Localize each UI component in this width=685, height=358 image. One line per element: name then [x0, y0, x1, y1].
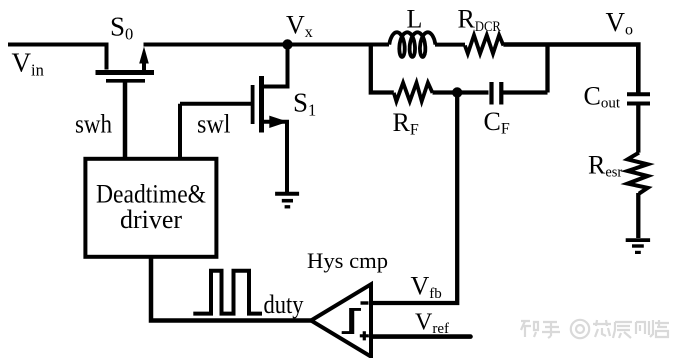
transistor S1 channel bar: [259, 76, 264, 133]
wire Vin to S0 drain: [8, 45, 107, 70]
ground under S1: [275, 194, 299, 207]
hysteresis symbol: [342, 309, 361, 332]
transistor S1 gate bar: [251, 85, 255, 124]
wire CF to right vertical: [503, 45, 548, 93]
op-amp U1 hysteretic comparator triangle: [311, 284, 371, 356]
svg-text:duty: duty: [264, 290, 304, 319]
resistor RDCR: [465, 35, 504, 54]
svg-text:swh: swh: [75, 110, 112, 139]
capacitor Cout: [627, 94, 650, 103]
wire RDCR to Vo corner: [503, 45, 638, 93]
svg-text:Vo: Vo: [606, 7, 634, 39]
svg-text:Hys cmp: Hys cmp: [307, 248, 388, 273]
ground right: [626, 240, 650, 252]
node Vx dot: [282, 39, 292, 49]
svg-text:Vin: Vin: [12, 47, 44, 79]
svg-text:Resr: Resr: [588, 151, 622, 181]
wire junction down to RF branch: [371, 45, 394, 93]
transistor S0 channel bar: [96, 70, 155, 75]
wire S0 source to Vx: [144, 43, 390, 47]
svg-text:L: L: [407, 5, 423, 34]
wire Resr to ground: [636, 193, 640, 238]
resistor Resr: [628, 153, 648, 194]
transistor S0 source arrow: [139, 47, 149, 64]
wire swl gate: [180, 104, 251, 160]
wire Vref: [371, 334, 471, 339]
svg-text:Vfb: Vfb: [411, 272, 442, 303]
svg-text:Vref: Vref: [415, 310, 449, 338]
duty pulse waveform: [193, 271, 262, 314]
wire S1 source: [262, 122, 288, 192]
svg-text:Vx: Vx: [286, 11, 313, 42]
wire Vfb: [371, 93, 457, 304]
node Vfb dot: [452, 87, 462, 97]
svg-text:driver: driver: [120, 205, 182, 234]
transistor S0 gate bar: [106, 79, 145, 83]
svg-text:Cout: Cout: [584, 82, 621, 112]
wire Cout to Resr: [636, 106, 640, 153]
watermark: [521, 320, 669, 338]
capacitor CF: [492, 82, 502, 105]
transistor S1 source arrow: [269, 116, 288, 128]
svg-text:swl: swl: [197, 110, 231, 139]
transistor S0 source line: [142, 60, 146, 75]
svg-text:RF: RF: [393, 108, 419, 139]
svg-text:RDCR: RDCR: [458, 5, 502, 35]
resistor RF: [394, 83, 433, 102]
wire RF to CF: [433, 90, 489, 94]
inductor L coil: [389, 32, 435, 57]
wire L to RDCR: [435, 43, 465, 47]
wire S1 drain: [262, 45, 288, 87]
Deadtime driver box: [85, 159, 216, 257]
plus input mark: [360, 331, 369, 340]
wire duty output: [151, 256, 311, 321]
svg-text:S0: S0: [110, 12, 133, 44]
svg-text:CF: CF: [484, 107, 510, 138]
minus input mark: [361, 301, 369, 304]
svg-text:S1: S1: [293, 88, 316, 120]
wire swh gate: [123, 82, 128, 160]
